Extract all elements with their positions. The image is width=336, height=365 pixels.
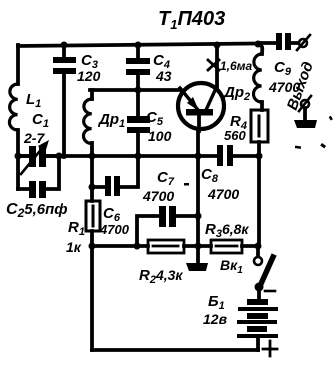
svg-text:R24,3к: R24,3к [139, 267, 183, 286]
ground base [186, 249, 208, 271]
wire base column [196, 131, 200, 246]
current mark x [208, 60, 219, 70]
svg-text:12в: 12в [203, 311, 228, 327]
wire R4 to switch column [257, 156, 261, 246]
capacitor C7 [137, 206, 198, 246]
svg-text:R36,8к: R36,8к [205, 221, 249, 240]
node top Dr2 [255, 41, 262, 48]
node top C4 [135, 42, 142, 49]
speck below output ground left [295, 146, 301, 149]
node mid R4 [256, 153, 263, 160]
svg-text:C9: C9 [274, 59, 292, 78]
wire collector [215, 44, 219, 87]
svg-text:43: 43 [155, 68, 172, 84]
node R2 R3 [195, 243, 202, 250]
svg-text:1,6ма: 1,6ма [220, 59, 253, 73]
node C6 left [89, 184, 96, 191]
capacitor C6 [92, 156, 138, 196]
capacitor C1 variable [18, 140, 54, 174]
battery minus [265, 290, 275, 293]
speck below output ground right [320, 143, 326, 148]
node R3 right [255, 243, 262, 250]
wire Dr1 column lower [90, 156, 94, 350]
output terminal ground [299, 96, 311, 120]
node emitter C4 [135, 87, 142, 94]
svg-text:C8: C8 [201, 166, 219, 185]
wire left column bottom [16, 130, 20, 189]
wire mid row [18, 154, 259, 158]
svg-text:120: 120 [77, 68, 101, 84]
svg-text:Б1: Б1 [208, 293, 225, 312]
resistor R3 [211, 240, 242, 253]
node C7 right [195, 213, 202, 220]
svg-text:C7: C7 [157, 169, 175, 188]
wire emitter row [90, 88, 180, 92]
svg-text:T1П403: T1П403 [158, 8, 225, 32]
node mid C5 [135, 153, 142, 160]
choke Dr2 [253, 44, 262, 110]
output terminal hot [297, 35, 310, 50]
svg-text:Др1: Др1 [97, 111, 125, 130]
svg-text:4700: 4700 [207, 186, 239, 202]
node C7 bottom [134, 243, 141, 250]
svg-text:4700: 4700 [99, 222, 130, 237]
capacitor C8 [217, 145, 233, 166]
capacitor C3 [53, 45, 76, 156]
svg-text:4700: 4700 [142, 188, 174, 204]
svg-text:R1: R1 [68, 219, 85, 238]
svg-text:Вк1: Вк1 [220, 257, 243, 276]
choke Dr1 [83, 90, 92, 156]
resistor R2 [148, 240, 184, 253]
svg-text:2-7: 2-7 [23, 130, 45, 146]
wire bottom rail [92, 348, 258, 352]
node mid C3 [61, 153, 67, 159]
svg-text:560: 560 [224, 128, 246, 143]
capacitor C4 [126, 45, 150, 90]
transistor T1 [178, 83, 224, 131]
node mid Dr1 [89, 153, 96, 160]
battery plus [263, 341, 277, 356]
node top C3 [61, 42, 68, 49]
svg-text:C25,6пф: C25,6пф [6, 201, 68, 220]
ground output bar [294, 120, 317, 128]
speck near C7 label [184, 183, 189, 186]
wire left column top [16, 45, 20, 84]
node mid left [15, 153, 22, 160]
wire top bus [18, 44, 258, 47]
resistor R1 [86, 201, 100, 231]
svg-text:100: 100 [148, 128, 172, 144]
resistor R4 [251, 110, 268, 156]
svg-text:Др2: Др2 [222, 84, 250, 103]
svg-text:L1: L1 [26, 91, 41, 110]
node switch pivot [255, 283, 264, 292]
svg-text:C5: C5 [146, 109, 164, 128]
speck right edge [329, 116, 333, 121]
capacitor C2 [18, 156, 59, 198]
switch Vk1 [254, 246, 273, 299]
wire bottom row [92, 244, 258, 248]
capacitor C5 [127, 90, 150, 156]
battery B1 [237, 299, 278, 350]
node top collector [214, 42, 221, 49]
inductor L1 [9, 84, 18, 130]
capacitor C9 [258, 33, 298, 50]
node R1 bottom [89, 243, 96, 250]
svg-text:C1: C1 [32, 111, 49, 130]
node mid C1 right [56, 153, 63, 160]
svg-text:1к: 1к [66, 239, 82, 255]
node mid base [195, 153, 202, 160]
